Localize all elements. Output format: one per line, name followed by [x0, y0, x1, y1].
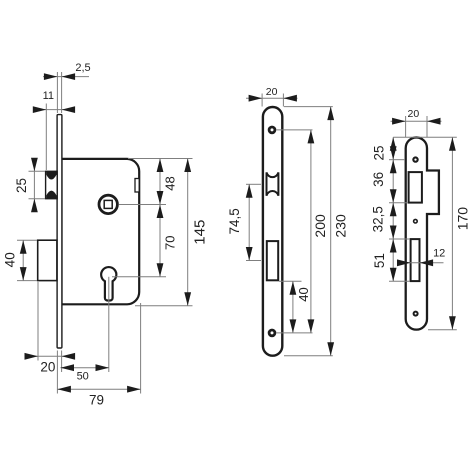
- svg-text:40: 40: [2, 252, 17, 267]
- svg-text:74,5: 74,5: [227, 208, 242, 234]
- svg-text:145: 145: [191, 220, 208, 245]
- svg-text:25: 25: [372, 145, 387, 160]
- svg-text:36: 36: [371, 172, 386, 187]
- svg-text:200: 200: [312, 214, 328, 238]
- svg-text:40: 40: [296, 287, 311, 301]
- svg-text:50: 50: [77, 371, 89, 383]
- svg-text:48: 48: [162, 176, 177, 190]
- svg-text:32,5: 32,5: [371, 206, 386, 232]
- svg-text:20: 20: [266, 86, 278, 98]
- svg-text:20: 20: [408, 108, 420, 120]
- svg-text:2,5: 2,5: [75, 62, 90, 74]
- svg-text:20: 20: [40, 360, 55, 375]
- svg-text:12: 12: [433, 248, 445, 260]
- svg-text:170: 170: [455, 207, 470, 231]
- svg-text:11: 11: [43, 90, 54, 102]
- svg-text:230: 230: [332, 214, 348, 238]
- svg-text:51: 51: [372, 253, 387, 268]
- svg-text:70: 70: [163, 236, 178, 250]
- svg-text:79: 79: [89, 393, 104, 408]
- svg-text:25: 25: [14, 178, 29, 193]
